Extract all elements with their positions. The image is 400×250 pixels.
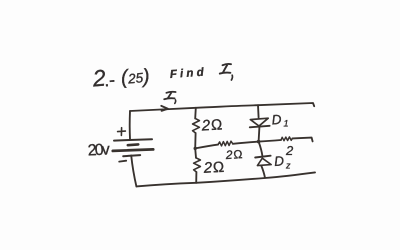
svg-text:.-: .- [103, 70, 116, 91]
svg-text:2Ω: 2Ω [200, 116, 223, 134]
svg-text:2Ω: 2Ω [202, 159, 225, 177]
svg-text:2: 2 [285, 143, 294, 158]
svg-text:D: D [274, 153, 285, 169]
svg-text:25: 25 [126, 70, 144, 86]
svg-text:Find: Find [169, 66, 207, 81]
svg-text:z: z [285, 161, 291, 171]
svg-text:1: 1 [284, 119, 289, 129]
svg-text:2Ω: 2Ω [224, 147, 243, 162]
svg-text:20v: 20v [87, 141, 110, 159]
svg-text:D: D [271, 112, 282, 128]
